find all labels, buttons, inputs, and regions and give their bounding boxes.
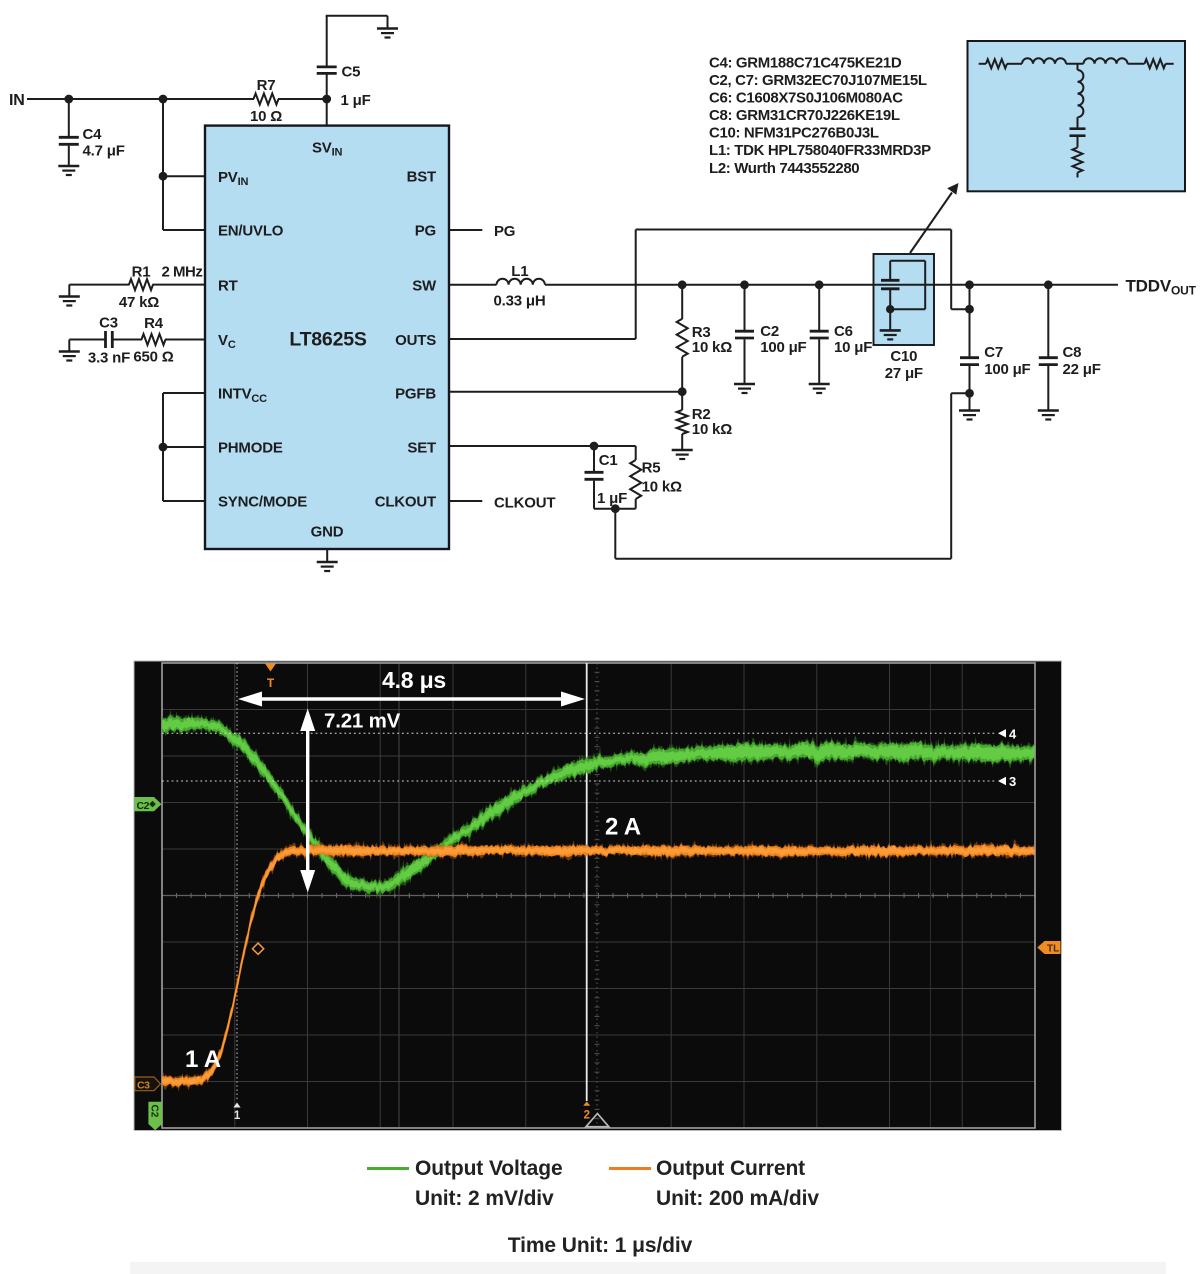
capacitor C7	[960, 285, 1031, 394]
junction at PVIN column	[159, 95, 168, 104]
svg-text:R1: R1	[132, 264, 151, 281]
detail box L2 filter model	[968, 41, 1186, 191]
grid frame	[162, 663, 1035, 1128]
arrow from C10 to detail box	[910, 183, 959, 253]
svg-text:R5: R5	[642, 460, 661, 477]
svg-text:C10: NFM31PC276B0J3L: C10: NFM31PC276B0J3L	[709, 125, 879, 142]
cursor 2 bottom marker	[583, 1102, 590, 1122]
svg-text:650 Ω: 650 Ω	[133, 349, 173, 366]
wire SW to L1	[449, 284, 497, 286]
orange output current trace	[162, 839, 1034, 1091]
svg-text:C6: C6	[834, 323, 853, 340]
resistor R4	[133, 315, 173, 366]
svg-text:SET: SET	[407, 440, 436, 457]
svg-text:100 μF: 100 μF	[984, 361, 1030, 378]
svg-text:C4: GRM188C71C475KE21D: C4: GRM188C71C475KE21D	[709, 55, 902, 72]
ground at C3	[59, 340, 80, 361]
wire CLKOUT stub	[449, 500, 482, 502]
svg-text:EN/UVLO: EN/UVLO	[218, 223, 284, 240]
wire GND pin	[326, 549, 328, 562]
parts list text	[709, 55, 931, 177]
wire ground return rail	[615, 393, 969, 558]
ground below C4	[58, 166, 79, 175]
svg-text:SW: SW	[412, 277, 437, 294]
svg-text:C5: C5	[342, 64, 361, 81]
resistor R1	[119, 264, 159, 312]
capacitor C10 block	[874, 254, 935, 382]
wire INTVCC loop	[163, 393, 205, 501]
junction R3 top	[678, 280, 687, 289]
op-amp U1 LT8625S IC body	[205, 126, 449, 549]
capacitor C3 (series)	[88, 315, 130, 367]
trigger level TL tag	[1037, 941, 1060, 955]
svg-text:C7: C7	[984, 344, 1003, 361]
junction at SVIN/C5	[322, 92, 370, 109]
svg-text:C3: C3	[137, 1079, 150, 1091]
svg-text:4: 4	[1009, 727, 1017, 742]
svg-text:TL: TL	[1047, 944, 1059, 955]
legend green swatch	[367, 1167, 409, 1170]
svg-text:L2: Wurth 7443552280: L2: Wurth 7443552280	[709, 160, 859, 177]
svg-text:4.8 μs: 4.8 μs	[382, 667, 446, 693]
node CLKOUT label	[494, 495, 555, 512]
svg-text:2: 2	[584, 1110, 590, 1122]
trigger time dotted line	[236, 663, 238, 1100]
svg-text:C1: C1	[599, 452, 618, 469]
channel C2 tag	[135, 797, 162, 812]
wire RT	[69, 284, 205, 286]
ground top right of C5	[377, 29, 398, 38]
junction PGFB / R2	[678, 387, 687, 396]
svg-text:BST: BST	[407, 169, 436, 186]
inductor L1	[494, 263, 546, 310]
capacitor C8	[1039, 285, 1101, 410]
legend Output Voltage	[415, 1157, 563, 1181]
wire PVIN stub	[163, 175, 205, 177]
wire VC	[69, 339, 205, 341]
ground below C2	[734, 384, 755, 393]
ground at RT	[59, 285, 80, 306]
7.21mV measurement arrow	[300, 709, 400, 893]
svg-text:100 μF: 100 μF	[760, 339, 806, 356]
svg-text:GND: GND	[311, 524, 344, 541]
junction OUTS sense at C7	[965, 305, 974, 314]
wire SVIN pin	[326, 99, 328, 126]
svg-text:C10: C10	[890, 348, 917, 365]
node IN label	[9, 92, 25, 109]
svg-text:C2: C2	[137, 800, 150, 812]
4.8us measurement arrow	[238, 667, 585, 707]
svg-text:10 μF: 10 μF	[834, 339, 872, 356]
wire PG stub	[449, 229, 482, 231]
junction C2	[740, 280, 749, 289]
wire SET	[449, 445, 636, 447]
svg-text:PG: PG	[415, 223, 436, 240]
wire OUTS sense path	[449, 230, 970, 340]
resistor R5	[630, 446, 682, 509]
ground below C7	[959, 411, 980, 420]
svg-text:IN: IN	[9, 92, 25, 109]
svg-text:PGFB: PGFB	[395, 386, 436, 403]
svg-text:R4: R4	[144, 315, 164, 332]
svg-text:1 A: 1 A	[185, 1046, 221, 1073]
wire EN/UVLO stub	[163, 229, 205, 231]
wire output rail	[545, 284, 1118, 286]
node TDDVOUT label	[1126, 276, 1197, 297]
svg-text:47 kΩ: 47 kΩ	[119, 294, 159, 311]
svg-text:C2, C7: GRM32EC70J107ME15L: C2, C7: GRM32EC70J107ME15L	[709, 72, 927, 89]
svg-text:PG: PG	[494, 223, 515, 240]
svg-text:0.33 μH: 0.33 μH	[494, 293, 546, 310]
junction C8 top	[1044, 280, 1053, 289]
svg-text:7.21 mV: 7.21 mV	[324, 710, 401, 733]
capacitor C6	[810, 285, 873, 384]
svg-text:RT: RT	[218, 277, 238, 294]
svg-text:10 Ω: 10 Ω	[250, 108, 282, 125]
ground below IC	[317, 562, 338, 571]
capacitor C1	[585, 446, 628, 509]
trigger T marker	[265, 664, 276, 691]
legend Output Current	[656, 1157, 805, 1181]
wire C5 to ground	[326, 16, 388, 28]
legend Unit 200mA/div	[656, 1187, 819, 1211]
wire IN horizontal rail	[27, 98, 327, 100]
svg-text:C3: C3	[99, 315, 118, 332]
svg-text:C2: C2	[149, 1105, 160, 1118]
svg-text:2 MHz: 2 MHz	[162, 264, 203, 281]
orange diamond marker on edge	[252, 943, 263, 954]
oscilloscope background	[134, 661, 1062, 1131]
resistor R2	[677, 392, 732, 450]
oscilloscope grid	[162, 663, 1035, 1128]
capacitor C4	[59, 99, 125, 165]
svg-text:L1: TDK HPL758040FR33MRD3P: L1: TDK HPL758040FR33MRD3P	[709, 142, 931, 159]
legend Unit 2mV/div	[415, 1187, 554, 1211]
junction C7 bottom	[965, 389, 974, 410]
junction bottom rail	[611, 504, 620, 513]
legend Time Unit	[0, 1234, 1200, 1258]
resistor R3	[677, 285, 732, 392]
svg-text:C6: C1608X7S0J106M080AC: C6: C1608X7S0J106M080AC	[709, 90, 903, 107]
svg-text:1: 1	[234, 1110, 241, 1122]
svg-text:10 kΩ: 10 kΩ	[692, 339, 732, 356]
label 1A	[185, 1046, 221, 1073]
svg-text:CLKOUT: CLKOUT	[494, 495, 555, 512]
junction at C4	[64, 95, 73, 104]
svg-text:C2: C2	[760, 323, 779, 340]
bottom grey bar	[130, 1262, 1166, 1274]
label 2 MHz	[162, 264, 203, 281]
junction C6	[815, 280, 824, 289]
capacitor C2	[735, 285, 807, 384]
svg-text:22 μF: 22 μF	[1063, 361, 1101, 378]
junction at PVIN	[159, 172, 168, 181]
green output voltage trace	[162, 710, 1034, 900]
svg-text:SYNC/MODE: SYNC/MODE	[218, 494, 307, 511]
svg-text:2 A: 2 A	[605, 814, 641, 841]
ground below C6	[809, 384, 830, 393]
legend orange swatch	[609, 1167, 651, 1170]
svg-text:3: 3	[1009, 774, 1016, 789]
svg-text:TDDVOUT: TDDVOUT	[1126, 276, 1197, 297]
svg-text:OUTS: OUTS	[395, 332, 436, 349]
wire PGFB stub	[449, 391, 682, 393]
label 2A	[605, 814, 641, 841]
junction C7 top	[965, 280, 974, 289]
svg-text:T: T	[267, 676, 275, 690]
trigger 1 bottom marker	[233, 1103, 240, 1123]
capacitor C5	[317, 16, 361, 99]
svg-text:CLKOUT: CLKOUT	[375, 494, 436, 511]
cursor 2 bright line	[586, 663, 588, 1101]
svg-text:LT8625S: LT8625S	[289, 329, 367, 351]
cursor 4 dotted line	[162, 727, 1017, 742]
svg-text:C8: GRM31CR70J226KE19L: C8: GRM31CR70J226KE19L	[709, 107, 900, 124]
svg-text:L1: L1	[511, 263, 528, 280]
resistor R7	[250, 77, 282, 125]
junction C1 top	[590, 442, 599, 451]
junction at PHMODE	[159, 443, 168, 452]
ground below C8	[1038, 411, 1059, 420]
svg-text:R7: R7	[257, 77, 276, 94]
svg-text:C8: C8	[1063, 344, 1082, 361]
wire PVIN column vertical	[162, 99, 164, 230]
svg-text:4.7 μF: 4.7 μF	[83, 143, 125, 160]
svg-text:10 kΩ: 10 kΩ	[642, 479, 682, 496]
cursor 3 dotted line	[162, 774, 1016, 789]
ground below R2	[672, 450, 693, 459]
channel C3 tag	[135, 1077, 161, 1091]
svg-text:1 μF: 1 μF	[341, 92, 371, 109]
svg-text:3.3 nF: 3.3 nF	[88, 350, 130, 367]
channel C2 bottom bookmark	[148, 1102, 162, 1131]
svg-text:10 kΩ: 10 kΩ	[692, 421, 732, 438]
svg-text:1 μF: 1 μF	[597, 490, 627, 507]
svg-text:PHMODE: PHMODE	[218, 440, 283, 457]
node PG label	[494, 223, 515, 240]
bottom grey triangle marker	[586, 1114, 609, 1127]
svg-text:C4: C4	[83, 126, 103, 143]
wire C1/R5 bottom	[594, 508, 636, 510]
svg-text:27 μF: 27 μF	[885, 365, 923, 382]
